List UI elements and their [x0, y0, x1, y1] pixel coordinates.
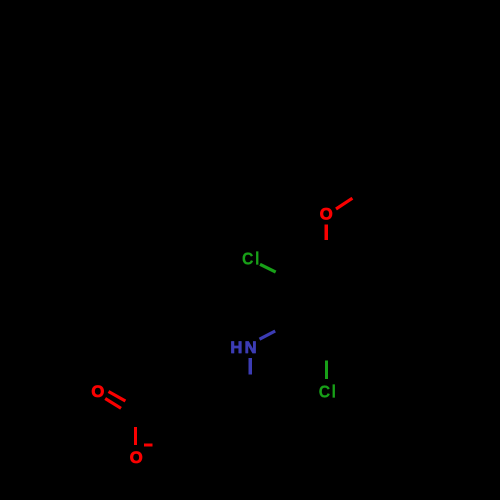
svg-text:l: l — [332, 382, 337, 402]
bond Cl1-C2 ring A (green half) — [260, 264, 276, 272]
svg-text:O: O — [91, 382, 104, 401]
bond C=O1 carboxylate double bond line 2 (red half) — [105, 399, 121, 409]
svg-text:N: N — [245, 338, 257, 357]
bond C-O2 carboxylate single bond (red half, vertical) — [134, 427, 137, 445]
svg-text:C: C — [242, 249, 254, 269]
bond O3-CH2 (red half, ether O to benzyl CH2) — [336, 198, 352, 209]
svg-text:O: O — [130, 448, 143, 467]
bond N-C1' ring C (blue half, down) — [249, 358, 252, 375]
charge minus sign on O2 — [144, 444, 153, 447]
svg-text:C: C — [319, 382, 331, 402]
bond N-C1 ring A (blue half, up-right) — [260, 331, 276, 339]
ring A (2,6-dichloro-3-benzyloxy-phenyl) carbon skeleton, black on black — [275, 240, 377, 360]
svg-text:H: H — [230, 338, 242, 357]
svg-text:O: O — [320, 205, 333, 224]
bond Cl2-C6 ring A (green half, vertical) — [325, 361, 328, 379]
bond C=O1 carboxylate double bond line 1 (red half) — [109, 392, 126, 402]
ring C (phenylacetate phenyl) carbon skeleton, black on black — [199, 375, 301, 493]
benzyl CH2 and ring B skeleton, black on black — [352, 94, 480, 213]
svg-text:l: l — [255, 249, 260, 269]
bond O3-C3 ring A (red half, vertical) — [325, 225, 328, 241]
